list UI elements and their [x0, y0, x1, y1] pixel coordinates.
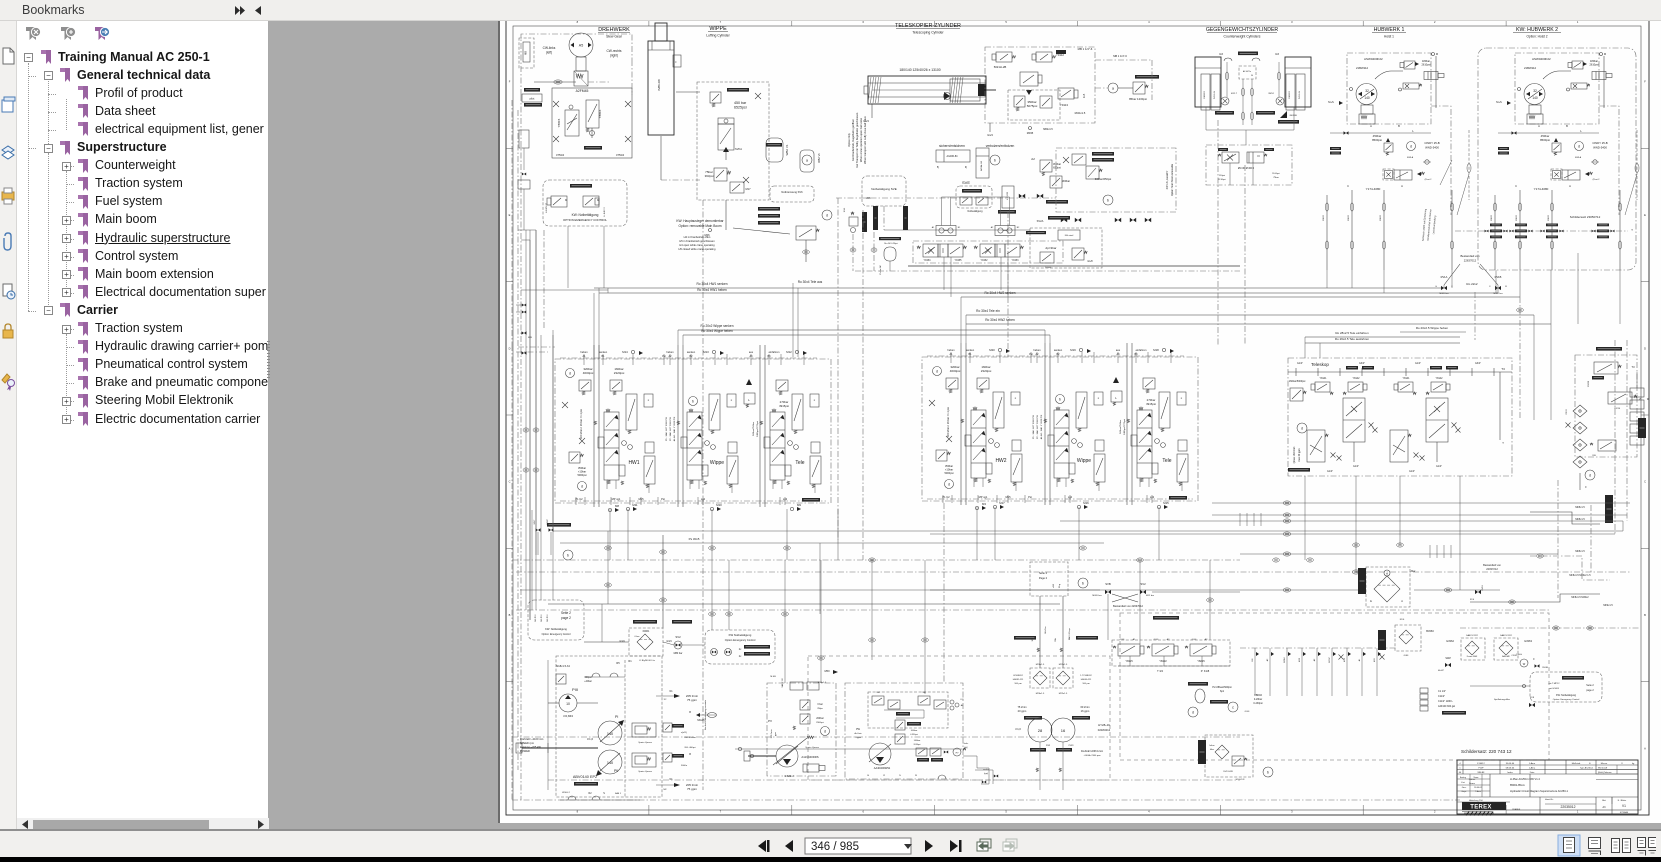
- hw2 box bottom risers: [1577, 253, 1579, 324]
- svg-text:max 30 gpm: max 30 gpm: [1298, 448, 1301, 461]
- pipe spec boxes: [1420, 688, 1428, 693]
- winch port M: [1432, 53, 1435, 56]
- svg-text:bei Transport mit Teilky Kugel: bei Transport mit Teilky Kugelhahn gesch…: [855, 112, 859, 167]
- svg-text:2x: 2x: [739, 655, 742, 658]
- svg-text:E: E: [509, 213, 511, 217]
- wire sve down: [1007, 212, 1009, 228]
- teleskop main spools: [1426, 398, 1448, 442]
- svg-text:IN/169-34: IN/169-34: [1214, 91, 1216, 99]
- left bowtie pair mid: [522, 304, 524, 307]
- svg-text:200bar: 200bar: [816, 717, 824, 720]
- title block bottom row: [1539, 797, 1541, 814]
- svg-text:H-E4/V 3: H-E4/V 3: [604, 207, 606, 217]
- relief bottom-left: [569, 452, 580, 463]
- svg-text:Ro 30x4 Wippe heben: Ro 30x4 Wippe heben: [701, 329, 733, 333]
- svg-text:Pst: Pst: [1028, 495, 1032, 499]
- relief bottom-left: [936, 450, 947, 461]
- svg-text:Luffing Cylinder: Luffing Cylinder: [706, 34, 730, 38]
- twin pump bottom: [1039, 742, 1041, 790]
- svg-text:Drehzahl ~2100 min: Drehzahl ~2100 min: [520, 737, 544, 741]
- svg-text:G3/4: G3/4: [666, 640, 672, 643]
- svg-text:C: C: [1347, 184, 1349, 188]
- svg-text:30: 30: [1251, 75, 1253, 77]
- svg-text:PI: PI: [615, 715, 618, 719]
- svg-text:A1-A3 - SAE 1” 6000 PSI: A1-A3 - SAE 1” 6000 PSI: [1040, 414, 1043, 439]
- svg-text:1130psi: 1130psi: [1218, 179, 1226, 181]
- svg-text:M020 bar: M020 bar: [1092, 594, 1102, 597]
- wippe relief 450bar: [727, 88, 749, 92]
- svg-text:450bar: 450bar: [1053, 162, 1061, 166]
- svg-text:M26x1.5: M26x1.5: [1036, 664, 1045, 666]
- svg-text:180/140 125/40/26 x 13100: 180/140 125/40/26 x 13100: [899, 68, 940, 72]
- swash block PII: [632, 753, 656, 767]
- svg-text:3915psi: 3915psi: [779, 404, 789, 408]
- svg-text:5000psi: 5000psi: [577, 473, 587, 477]
- svg-text:MP xg1: MP xg1: [979, 495, 988, 499]
- svg-text:75 gpm: 75 gpm: [687, 787, 698, 791]
- left wrap verticals: [525, 505, 527, 610]
- svg-text:SWZ: SWZ: [1445, 657, 1451, 660]
- svg-text:200..400bar: 200..400bar: [684, 736, 696, 739]
- svg-text:Page 2: Page 2: [1039, 576, 1048, 580]
- svg-text:Ro 30x4 HW2 senken: Ro 30x4 HW2 senken: [984, 291, 1015, 295]
- circle d cindy: [1575, 142, 1584, 151]
- svg-text:i=0,843: i=0,843: [563, 714, 573, 718]
- svg-text:KW: Hauptausleger demontierbar: KW: Hauptausleger demontierbar: [676, 219, 724, 223]
- svg-text:When crane operation open: bal: When crane operation open: ball valve: [859, 117, 863, 162]
- teleskop xmarks: [1369, 423, 1374, 428]
- svg-text:d: d: [824, 730, 826, 734]
- motor A2FM45: [569, 33, 593, 57]
- circle b: [990, 155, 1000, 165]
- svg-text:75bar: 75bar: [1273, 176, 1279, 179]
- svg-text:Seite 2: Seite 2: [561, 611, 571, 615]
- svg-text:M22x1.5: M22x1.5: [1059, 664, 1068, 666]
- svg-text:SVKA: SVKA: [735, 147, 742, 151]
- y-valve row label: [1153, 616, 1179, 620]
- svg-text:M12 bar: M12 bar: [1146, 594, 1154, 597]
- svg-text:a: a: [1112, 87, 1114, 91]
- tele cyl hatch left: [868, 77, 871, 103]
- tele cylinder body: [868, 76, 986, 104]
- swash block PI: [632, 723, 656, 737]
- svg-text:heben: heben: [580, 350, 588, 354]
- svg-text:B: B: [1398, 124, 1400, 128]
- svg-text:H0081-111: H0081-111: [1013, 679, 1024, 681]
- svg-text:C11/2": C11/2": [1438, 695, 1445, 698]
- sve left relief: [849, 217, 858, 226]
- svg-text:MF9x1.5: MF9x1.5: [1603, 604, 1613, 607]
- svg-text:MF8x1.5: MF8x1.5: [1575, 550, 1585, 553]
- svg-text:(left): (left): [546, 51, 552, 55]
- svg-text:ASW0400F22: ASW0400F22: [1532, 57, 1551, 61]
- circle b left: [563, 550, 573, 560]
- hoist counterbalance: [1551, 169, 1562, 180]
- svg-text:31/6: 31/6: [1470, 599, 1475, 601]
- svg-text:Y8215: Y8215: [1197, 659, 1205, 663]
- svg-text:CW-links: CW-links: [543, 46, 556, 50]
- svg-text:SV19: SV19: [1482, 585, 1484, 591]
- shuttle circles Wippe: [1072, 439, 1077, 444]
- a11v steps right: [963, 756, 989, 784]
- a11v reliefs: [800, 700, 810, 710]
- svg-text:xg3: xg3: [1150, 495, 1155, 499]
- svg-text:C: C: [509, 480, 511, 484]
- shuttle circles HW2: [989, 439, 994, 444]
- svg-text:P1 U2: P1 U2: [575, 497, 583, 501]
- svg-text:Telescoping Cylinder: Telescoping Cylinder: [912, 31, 944, 35]
- teleskop risers down: [1304, 476, 1306, 560]
- svg-text:IN/B6-445: IN/B6-445: [657, 79, 661, 91]
- svg-text:Tele: Tele: [795, 460, 804, 466]
- svg-text:Ro 20x2.5 Wippe heben: Ro 20x2.5 Wippe heben: [1416, 326, 1449, 330]
- svg-text:F: F: [509, 80, 511, 84]
- hoist risers: [1326, 195, 1328, 270]
- svg-text:Abteilung 150: Abteilung 150: [1469, 799, 1483, 802]
- svg-text:Slew Gear: Slew Gear: [606, 35, 623, 39]
- svg-text:Schildersatz 23050712: Schildersatz 23050712: [1570, 215, 1601, 219]
- svg-text:Zust: Zust: [1461, 781, 1465, 784]
- valve module HW2: [973, 407, 977, 410]
- hw2 label rows: [1490, 224, 1502, 227]
- bank bottom port line: [927, 498, 1193, 500]
- svg-text:Pst: Pst: [1029, 353, 1033, 356]
- instr box lower: [1205, 735, 1253, 777]
- teleskop ports: [1436, 442, 1438, 462]
- svg-text:SV2A: SV2A: [1037, 219, 1044, 223]
- svg-text:G3/4: G3/4: [619, 640, 625, 643]
- svg-text:CRANES: CRANES: [1512, 808, 1521, 811]
- compensator top Tele: [792, 394, 803, 430]
- frame grid ticks top: [648, 15, 650, 26]
- svg-text:einfahren: einfahren: [769, 350, 780, 354]
- drehwerk emergency box: [543, 180, 627, 226]
- circle d lower: [578, 482, 587, 491]
- mid bus wires: [930, 589, 1100, 591]
- a11v swash: [773, 738, 807, 765]
- svg-text:Sp1: Sp1: [1220, 690, 1225, 693]
- svg-text:aus: aus: [1116, 349, 1121, 352]
- svg-text:heben: heben: [666, 350, 674, 354]
- svg-text:NG.steel: NG.steel: [1065, 234, 1074, 237]
- svg-text:SV1/G1/8: SV1/G1/8: [1223, 771, 1233, 773]
- left bus hstubs: [518, 229, 536, 231]
- svg-text:Y8015: Y8015: [1566, 408, 1568, 415]
- svg-text:links: links: [964, 743, 969, 745]
- aa4d right small valves: [916, 748, 927, 756]
- svg-text:SVE: SVE: [962, 180, 970, 185]
- winch dash-dot box: [1515, 53, 1599, 124]
- svg-text:10: 10: [566, 702, 570, 706]
- pm ports arrows: [674, 694, 680, 698]
- a11v shaft: [748, 755, 776, 757]
- valve module HW1: [606, 409, 610, 412]
- svg-text:16 gpm: 16 gpm: [1081, 709, 1090, 713]
- drehwerk dash-dot boundary: [521, 34, 632, 95]
- circle d cindy: [1407, 142, 1416, 151]
- right area dash verticals: [1217, 120, 1219, 345]
- svg-text:M15: M15: [1163, 501, 1169, 505]
- pages icon: [3, 48, 14, 64]
- wippe cyl side tab: [673, 55, 681, 67]
- svg-text:G1/4: G1/4: [863, 119, 869, 123]
- svg-text:21BW112: 21BW112: [1524, 66, 1537, 70]
- mid relief black arrow: [746, 379, 752, 385]
- long h y531: [553, 530, 1623, 532]
- svg-text:A2FM45: A2FM45: [576, 89, 589, 93]
- winch top valve: [1572, 61, 1583, 69]
- wippe cylinder body: [648, 41, 674, 135]
- right column box: [1575, 355, 1637, 457]
- svg-text:(R-art.2: (R-art.2: [1425, 178, 1433, 181]
- svg-text:M9x45: M9x45: [697, 719, 705, 722]
- svg-text:Y9155: Y9155: [955, 259, 963, 262]
- svg-text:B1: B1: [969, 353, 973, 356]
- svg-text:02108612: 02108612: [1013, 675, 1024, 677]
- svg-text:Nur bei Notbetätigung vorwärts: Nur bei Notbetätigung vorwärts: [704, 699, 707, 730]
- svg-text:43/2.7: 43/2.7: [1231, 93, 1238, 95]
- svg-text:page 2: page 2: [561, 616, 571, 620]
- svg-text:23gpm: 23gpm: [855, 737, 861, 739]
- pump drive line: [735, 748, 962, 750]
- svg-text:P1 - SAE 11/2” 6000 PSI: P1 - SAE 11/2” 6000 PSI: [665, 417, 668, 441]
- svg-text:IN/169-34: IN/169-34: [1299, 91, 1301, 99]
- svg-text:L: L: [748, 398, 750, 402]
- svg-text:M3: M3: [982, 502, 986, 506]
- sve mid dark labels: [879, 237, 901, 240]
- svg-text:G3/4": G3/4": [1359, 362, 1365, 365]
- y row ports: [1129, 656, 1131, 666]
- mid right circle d: [1585, 470, 1595, 480]
- svg-text:L: L: [1412, 129, 1414, 133]
- svg-text:WND-5400: WND-5400: [1425, 146, 1439, 150]
- wippe cyl lines: [660, 136, 662, 180]
- shuttle circles HW1: [622, 441, 627, 446]
- container verticals mid: [837, 198, 839, 540]
- svg-text:H5 closed while crane operatin: H5 closed while crane operating: [679, 247, 716, 251]
- svg-text:HW1: HW1: [628, 460, 639, 466]
- svg-text:TELESKOPIER-ZYLINDER: TELESKOPIER-ZYLINDER: [895, 23, 961, 29]
- title block frame: [1457, 760, 1638, 814]
- drehwerk dd vertical right: [631, 60, 633, 95]
- right dashed branch: [1636, 130, 1638, 200]
- circle a wippe: [802, 155, 812, 165]
- svg-text:heben: heben: [947, 348, 955, 352]
- ggw top arcs: [1224, 58, 1232, 61]
- module side WW Wippe: [677, 421, 680, 425]
- svg-text:A3: A3: [750, 355, 754, 358]
- valve Y8815: [565, 110, 579, 136]
- winch bus stub: [1330, 132, 1431, 134]
- module arrows Wippe: [698, 415, 702, 420]
- wippe lower relief: [714, 168, 727, 181]
- module port stubs Tele: [772, 480, 774, 489]
- svg-text:(R-art.2: (R-art.2: [1593, 178, 1601, 181]
- svg-text:T: T: [1502, 441, 1504, 445]
- svg-text:I1/3: I1/3: [1219, 53, 1224, 56]
- circle b bank: [1056, 395, 1065, 404]
- svg-text:d: d: [1410, 145, 1412, 149]
- svg-text:PIII: PIII: [572, 687, 578, 692]
- svg-text:164: 164: [876, 692, 880, 694]
- svg-text:M80 bar: M80 bar: [674, 652, 683, 655]
- svg-text:Gez.: Gez.: [1462, 787, 1467, 789]
- svg-text:E: E: [1370, 600, 1372, 603]
- rc check diamonds: [1573, 405, 1587, 417]
- svg-text:2320psi: 2320psi: [614, 371, 625, 375]
- valve Y8115: [1118, 644, 1140, 656]
- svg-text:G1/4: G1/4: [987, 133, 993, 137]
- svg-text:+10bar: +10bar: [578, 470, 586, 474]
- svg-text:+10bar: +10bar: [945, 468, 953, 472]
- svg-text:M18: M18: [1153, 348, 1159, 352]
- title block middle: [1457, 796, 1638, 798]
- doc-clock icon: [3, 284, 12, 296]
- svg-text:GEGENGEWICHTSZYLINDER: GEGENGEWICHTSZYLINDER: [1206, 27, 1279, 33]
- port M: [1162, 348, 1165, 351]
- sv19 bowtie: [1475, 590, 1478, 594]
- teleskop ports: [1353, 442, 1355, 462]
- svg-text:Pst: Pst: [661, 497, 665, 501]
- prop valve dashdot box: [913, 241, 1063, 263]
- dashed container mid bottom: [808, 656, 1110, 780]
- svg-text:E: E: [1589, 763, 1591, 765]
- svg-text:5000psi: 5000psi: [944, 471, 954, 475]
- svg-text:M2-P10: M2-P10: [547, 614, 549, 622]
- svg-text:WIPPE: WIPPE: [709, 26, 727, 32]
- module arrows Tele: [781, 415, 785, 420]
- svg-text:Sonderarmaturteil mit interner: Sonderarmaturteil mit interner: [1427, 209, 1433, 241]
- wippe cluster dash box: [697, 82, 769, 200]
- compensator top Wippe: [709, 394, 720, 430]
- svg-text:G: G: [1435, 286, 1437, 288]
- big dashdot box b: [1056, 148, 1176, 212]
- svg-text:Hoist 1: Hoist 1: [1384, 35, 1394, 39]
- svg-text:G1/4: G1/4: [1192, 639, 1198, 641]
- svg-text:Ro 22x2: Ro 22x2: [1466, 282, 1478, 286]
- winch pilot diag: [1375, 71, 1403, 79]
- svg-text:L: L: [1115, 396, 1117, 400]
- mid relief black arrow: [1113, 377, 1119, 383]
- svg-text:180bar: 180bar: [1422, 59, 1430, 63]
- sve mid column: [1002, 186, 1014, 208]
- svg-text:H4 open while crane operating: H4 open while crane operating: [679, 243, 715, 247]
- svg-text:Vpmin Vpmax: Vpmin Vpmax: [638, 771, 653, 773]
- svg-text:R: R: [1181, 398, 1183, 400]
- prop valve group 1: [917, 246, 920, 249]
- svg-text:K1/6: K1/6: [1400, 619, 1405, 621]
- svg-text:Ms1/4”: Ms1/4”: [1438, 670, 1444, 672]
- svg-text:W: W: [915, 775, 917, 777]
- svg-text:Masse: Masse: [1601, 763, 1608, 765]
- svg-text:300bar: 300bar: [1062, 179, 1070, 183]
- svg-text:M8: M8: [615, 504, 619, 508]
- lock icon: [3, 330, 13, 338]
- svg-text:100 µm: 100 µm: [1014, 683, 1022, 685]
- svg-text:0-20bar: 0-20bar: [1254, 698, 1262, 701]
- svg-text:(right): (right): [610, 54, 618, 58]
- dark label left y524: [547, 523, 571, 527]
- svg-text:PWII: PWII: [1069, 745, 1074, 747]
- svg-text:b: b: [1107, 199, 1109, 203]
- svg-text:KLB: KLB: [1083, 93, 1086, 98]
- svg-text:Re+DK 0.28psi: Re+DK 0.28psi: [884, 243, 898, 245]
- svg-text:110psi: 110psi: [1219, 175, 1226, 177]
- svg-text:einfahren: einfahren: [1136, 348, 1147, 352]
- svg-text:A: A: [1644, 746, 1646, 750]
- svg-text:Ro 30x4 Tele ein: Ro 30x4 Tele ein: [976, 309, 1000, 313]
- svg-text:300bar/650psi: 300bar/650psi: [1095, 177, 1112, 181]
- svg-text:M32x1.5: M32x1.5: [1075, 111, 1086, 115]
- svg-text:4.350psi: 4.350psi: [910, 734, 918, 736]
- svg-text:Pv=28bar/2900psi: Pv=28bar/2900psi: [1212, 686, 1232, 689]
- svg-text:29B70: 29B70: [1548, 214, 1550, 221]
- drehwerk small box MB: [519, 38, 534, 68]
- svg-text:Bestandteil von 22637012: Bestandteil von 22637012: [1113, 604, 1144, 608]
- svg-text:C1 1/2": C1 1/2": [1438, 690, 1446, 693]
- schematic page: [500, 5, 1661, 823]
- svg-text:Option: removable Main Boom: Option: removable Main Boom: [678, 224, 721, 228]
- svg-text:MB 1 1/4"-6: MB 1 1/4"-6: [1113, 54, 1127, 58]
- bump chain x1287: [1283, 501, 1291, 505]
- svg-text:363psi: 363psi: [705, 174, 714, 178]
- svg-text:RV1A: RV1A: [1441, 275, 1448, 279]
- svg-text:3/4t: 3/4t: [1054, 638, 1057, 642]
- svg-text:(rge): (rge): [984, 773, 989, 775]
- svg-text:P: K1/8: P: K1/8: [1201, 669, 1210, 673]
- svg-text:B. / Blätter: B. / Blätter: [1618, 799, 1627, 802]
- container box left tall: [517, 110, 519, 770]
- frame grid ticks right: [1641, 147, 1649, 149]
- mid right step wires: [1605, 495, 1613, 523]
- module side WW HW2: [961, 419, 964, 423]
- riser bumps: [1325, 203, 1328, 211]
- notbetatigung SVE box left: [862, 176, 906, 206]
- svg-text:T: T: [1631, 228, 1633, 232]
- aa4d ipv circle: [953, 748, 961, 756]
- svg-text:12: 12: [883, 775, 886, 777]
- svg-text:R: R: [648, 400, 650, 402]
- svg-text:F10612: F10612: [1477, 763, 1485, 765]
- svg-text:W06-L2: W06-L2: [562, 792, 570, 794]
- svg-text:Seite 2: Seite 2: [1586, 684, 1594, 687]
- svg-text:N1: N1: [669, 690, 673, 693]
- slew block labels: [584, 146, 602, 150]
- svg-text:400 l/min / 16 bar / 1.1 psi: 400 l/min / 16 bar / 1.1 psi: [579, 409, 583, 439]
- svg-text:X2: X2: [664, 699, 667, 701]
- shuttle risers up: [941, 197, 943, 226]
- instrument oval: [1195, 689, 1205, 703]
- teleskop main spools: [1343, 398, 1365, 442]
- svg-text:d: d: [1301, 427, 1303, 431]
- aa4d relief mid: [895, 720, 905, 730]
- svg-text:A: A: [1401, 600, 1403, 603]
- wippe cylinder rod: [655, 23, 667, 41]
- svg-text:M50: M50: [824, 669, 830, 673]
- svg-text:ABV0140 EP2: ABV0140 EP2: [573, 775, 597, 779]
- svg-text:Ident-Nr:: Ident-Nr:: [1545, 798, 1554, 801]
- svg-text:4600psi: 4600psi: [583, 371, 594, 375]
- svg-text:M: M: [1604, 52, 1606, 56]
- svg-text:Ro 26x2.5 Tele ausfahren: Ro 26x2.5 Tele ausfahren: [1335, 337, 1369, 341]
- shuttle box 1: [936, 226, 956, 236]
- svg-text:8500psi: 8500psi: [1372, 138, 1382, 142]
- svg-text:Änderg: Änderg: [1460, 776, 1466, 779]
- ggw left cylinder pair: [1195, 57, 1221, 107]
- left hose bumps: [523, 428, 529, 432]
- svg-text:PWI: PWI: [1046, 745, 1051, 747]
- svg-text:D: D: [1644, 346, 1646, 350]
